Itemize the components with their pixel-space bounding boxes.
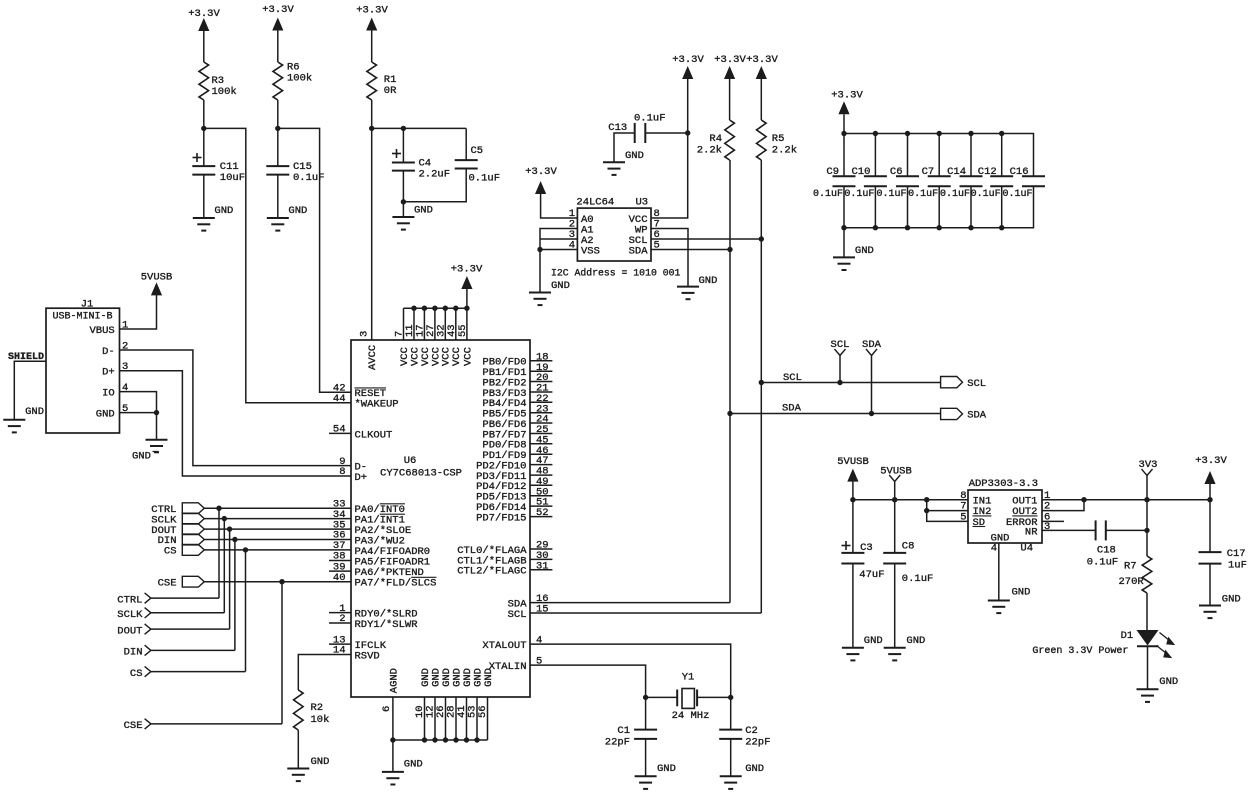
wire R2 to ground [297, 730, 299, 769]
wire A1 to gnd [540, 229, 577, 293]
svg-text:AVCC: AVCC [367, 345, 379, 370]
wire R1 to node [371, 100, 373, 128]
power +3.3V (reg out) [1195, 455, 1227, 484]
svg-text:VSS: VSS [581, 245, 600, 257]
wire C15 to ground [277, 175, 279, 218]
node SCL/U3 junction [759, 236, 764, 241]
chevron label CSE [124, 719, 151, 732]
svg-text:CS: CS [164, 546, 177, 558]
wire U6 VCC rail [404, 307, 467, 309]
wire DOUT vertical [229, 529, 231, 629]
wire crystal right [697, 696, 731, 698]
wire CS vertical [245, 550, 247, 672]
ground (C3) [842, 635, 883, 660]
ground (C11) [193, 205, 234, 231]
wire R3 to node [203, 100, 205, 128]
power +3.3V (R6) [262, 4, 294, 31]
capacitor C12 [971, 131, 1014, 231]
wire R6 node to RESET [278, 128, 351, 392]
svg-text:D+: D+ [355, 472, 368, 484]
svg-text:SDA: SDA [967, 409, 987, 421]
svg-text:R4: R4 [709, 133, 722, 145]
svg-text:GND: GND [414, 205, 433, 217]
text SHIELD [8, 352, 44, 363]
wire +3.3V to A0 [541, 194, 578, 218]
svg-text:0.1uF: 0.1uF [844, 189, 874, 200]
node SDA/U3 junction [727, 247, 732, 252]
svg-text:CLKOUT: CLKOUT [355, 429, 393, 441]
svg-text:2.2k: 2.2k [697, 145, 722, 157]
wire +3.3V to R4 [729, 79, 731, 120]
svg-text:DIN: DIN [124, 647, 143, 659]
wire +3.3V to R6 [277, 31, 279, 63]
ground (J1) [132, 440, 168, 463]
svg-text:USB-MINI-B: USB-MINI-B [52, 312, 112, 323]
svg-text:+3.3V: +3.3V [356, 5, 388, 17]
svg-text:AGND: AGND [388, 668, 400, 693]
tag connector DOUT [151, 524, 204, 537]
svg-text:100k: 100k [287, 73, 312, 85]
resistor R1 [367, 62, 397, 100]
wire C2 drop [730, 697, 732, 729]
wire CSE vertical [281, 582, 283, 724]
svg-text:C12: C12 [978, 166, 997, 178]
svg-text:24LC64: 24LC64 [576, 197, 614, 209]
wire U6 bottom stubs [393, 697, 488, 740]
svg-text:RDY1/*SLWR: RDY1/*SLWR [355, 619, 419, 631]
svg-text:C1: C1 [617, 725, 630, 737]
wire U6 SDA pin16 [530, 602, 730, 604]
node C4 ground junction [401, 199, 406, 204]
svg-text:+3.3V: +3.3V [831, 90, 863, 102]
power +3.3V (cap bank) [831, 90, 863, 115]
flag SDA out [941, 408, 987, 421]
svg-text:CTRL: CTRL [117, 594, 142, 606]
svg-text:2.2k: 2.2k [772, 145, 797, 157]
wire SCLK chevron [151, 612, 224, 614]
LED D1 [1121, 630, 1176, 658]
svg-text:R5: R5 [772, 133, 785, 145]
tag connector DIN [158, 534, 205, 547]
capacitor C1 [605, 725, 657, 749]
node R6/C15/RESET junction [275, 126, 280, 131]
wire DOUT to U6 [204, 528, 351, 530]
text green power [1032, 646, 1128, 657]
connector J1 USB-MINI-B [46, 298, 128, 433]
svg-text:SDA: SDA [862, 339, 882, 351]
wire R7 to LED [1146, 593, 1148, 630]
svg-text:GND: GND [288, 205, 307, 217]
svg-text:0.1uF: 0.1uF [1087, 557, 1119, 569]
svg-text:GND: GND [699, 275, 718, 287]
svg-text:0R: 0R [384, 85, 397, 97]
capacitor C3 [841, 541, 884, 581]
wire A2 to gnd [540, 238, 577, 240]
svg-text:0.1uF: 0.1uF [940, 189, 970, 200]
wire XTALIN [530, 665, 646, 697]
node C3 junction [850, 497, 855, 502]
wire +3.3V to rail [843, 114, 845, 133]
wire D+ pin3 to U6 [120, 371, 352, 476]
chevron label SCLK [117, 608, 151, 621]
crystal Y1 [672, 672, 710, 723]
svg-text:C17: C17 [1227, 548, 1246, 560]
svg-text:ADP3303-3.3: ADP3303-3.3 [969, 478, 1038, 490]
svg-text:D-: D- [102, 346, 115, 358]
svg-text:44: 44 [333, 393, 346, 405]
node IN2 branch junction [924, 497, 929, 502]
tag connector CS [164, 545, 204, 558]
svg-text:5VUSB: 5VUSB [141, 272, 173, 284]
svg-text:PA7/*FLD/SLCS: PA7/*FLD/SLCS [355, 578, 437, 590]
svg-text:270R: 270R [1119, 576, 1145, 588]
svg-text:C6: C6 [890, 166, 903, 178]
node SCLK junction [222, 516, 227, 521]
wire C1 to ground [645, 739, 647, 776]
ground (D1) [1137, 676, 1179, 702]
wire U6 ground rail [393, 739, 488, 741]
resistor R5 [757, 120, 798, 160]
svg-text:SDA: SDA [629, 245, 649, 257]
svg-text:8: 8 [339, 466, 345, 478]
svg-text:+3.3V: +3.3V [746, 54, 778, 66]
tag connector CTRL [151, 503, 204, 516]
node CTRL junction [216, 506, 221, 511]
wire VBUS pin1 [120, 293, 157, 329]
wire node to ground [402, 202, 404, 217]
capacitor C2 [719, 725, 770, 749]
svg-text:C8: C8 [902, 541, 915, 553]
svg-text:3: 3 [359, 331, 371, 337]
node SD branch junction [924, 508, 929, 513]
svg-text:GND: GND [214, 205, 233, 217]
capacitor C16 [1002, 166, 1045, 200]
wire C18 to node [1106, 529, 1147, 531]
svg-text:GND: GND [132, 451, 151, 463]
ground (C1) [635, 763, 676, 789]
svg-text:5: 5 [960, 512, 966, 524]
svg-text:C7: C7 [922, 166, 935, 178]
wire SHIELD to gnd [14, 361, 46, 420]
wire rail to +3.3V [466, 289, 468, 308]
svg-text:VBUS: VBUS [89, 325, 114, 337]
svg-text:0.1uF: 0.1uF [813, 189, 843, 200]
svg-text:+3.3V: +3.3V [1195, 455, 1227, 467]
svg-text:6: 6 [381, 706, 393, 712]
svg-text:RSVD: RSVD [355, 650, 380, 662]
wire C3 to ground [852, 564, 854, 648]
svg-text:SCL: SCL [831, 339, 850, 351]
wire CS to U6 [204, 549, 351, 551]
wire OUT1 rail [1042, 499, 1210, 501]
wire ERROR stub [1042, 520, 1064, 522]
capacitor C7 [908, 131, 951, 231]
capacitor C15 [266, 161, 324, 184]
capacitor C14 [940, 131, 983, 231]
svg-text:SCLK: SCLK [117, 609, 143, 621]
svg-text:CSE: CSE [158, 577, 177, 589]
IC U3 24LC64 [569, 197, 660, 262]
wire CSE chevron [151, 723, 282, 725]
svg-text:SCL: SCL [967, 378, 986, 390]
svg-text:J1: J1 [81, 298, 94, 310]
svg-text:C18: C18 [1097, 545, 1116, 557]
svg-text:GND: GND [745, 763, 764, 775]
svg-text:D+: D+ [102, 367, 115, 379]
node NR junction [1144, 528, 1149, 533]
wire node to C4 [402, 128, 404, 162]
power +3.3V (U3 A0) [525, 166, 557, 194]
IC U6 CY7C68013-CSP [329, 308, 552, 718]
wire C5 drop [465, 128, 467, 160]
svg-text:GND: GND [311, 756, 330, 768]
ground (C8) [884, 635, 926, 660]
wire WP pin7 to gnd [651, 229, 688, 287]
wire GND pin5 [120, 412, 157, 414]
svg-text:10uF: 10uF [220, 172, 245, 184]
flag SCL out [941, 377, 987, 390]
capacitor C6 [876, 131, 919, 231]
svg-text:0.1uF: 0.1uF [902, 573, 934, 585]
svg-text:GND: GND [906, 635, 925, 647]
svg-text:IO: IO [102, 387, 115, 399]
wire CTRL chevron [151, 597, 219, 599]
svg-text:CTL2/*FLAGC: CTL2/*FLAGC [457, 566, 526, 578]
wire AVCC down to U6 [371, 128, 373, 340]
svg-text:24 MHz: 24 MHz [672, 710, 710, 722]
wire 5VUSB arrow stem [852, 482, 854, 500]
chevron label DOUT [117, 624, 151, 637]
chevron label CS [130, 666, 151, 679]
node CS junction [243, 547, 248, 552]
resistor R2 [294, 690, 330, 730]
svg-text:5VUSB: 5VUSB [837, 456, 869, 468]
capacitor C5 [455, 145, 500, 185]
node C17 junction [1207, 497, 1212, 502]
resistor R4 [697, 120, 735, 160]
svg-text:10k: 10k [311, 714, 330, 726]
capacitor C11 [192, 153, 245, 184]
wire C5 to gnd rail [403, 169, 466, 202]
svg-text:0.1uF: 0.1uF [1002, 189, 1032, 200]
svg-text:GND: GND [864, 635, 883, 647]
power +3.3V (R5) [746, 54, 778, 79]
wire C8 to ground [894, 564, 896, 648]
svg-text:D1: D1 [1121, 630, 1134, 642]
wire D- pin2 to U6 [120, 350, 352, 466]
wire node to C15 [277, 128, 279, 166]
wire C17 to ground [1209, 564, 1211, 606]
node J1 gnd junction [154, 410, 159, 415]
wire U4 GND pin4 [998, 543, 1000, 601]
svg-text:C9: C9 [826, 166, 839, 178]
wire C11 to ground [203, 175, 205, 218]
node SDA stem junction [869, 411, 874, 416]
node R3/C11/WAKEUP junction [201, 126, 206, 131]
wire SCL bus [761, 372, 940, 384]
svg-text:GND: GND [483, 668, 495, 687]
tag connector SCLK [151, 513, 204, 526]
ground (C13) [603, 150, 644, 175]
ground (SHIELD) [3, 406, 44, 432]
node C8 junction [892, 497, 897, 502]
svg-text:SDA: SDA [782, 403, 802, 415]
node SCL bus junction [759, 380, 764, 385]
svg-text:GND: GND [1222, 594, 1241, 606]
svg-text:PD7/FD15: PD7/FD15 [476, 513, 526, 525]
ground (C2) [720, 763, 764, 789]
wire +3.3V stem [1209, 484, 1211, 500]
wire NR to C18 [1042, 529, 1096, 531]
svg-text:47uF: 47uF [859, 569, 884, 581]
wire SCLK to U6 [204, 518, 351, 520]
wire SDA bus [730, 403, 941, 415]
svg-text:22pF: 22pF [745, 737, 770, 749]
svg-text:C13: C13 [608, 122, 627, 134]
svg-text:+3.3V: +3.3V [714, 54, 746, 66]
wire DIN vertical [234, 540, 236, 651]
svg-text:+3.3V: +3.3V [188, 8, 220, 20]
svg-text:U6: U6 [404, 455, 417, 467]
svg-text:C3: C3 [860, 542, 873, 554]
wire cap bank top rail [844, 134, 1034, 177]
svg-text:C10: C10 [851, 166, 870, 178]
wire 3V3 to NR node [1146, 500, 1148, 531]
svg-text:C2: C2 [745, 725, 758, 737]
power +3.3V (R1) [356, 5, 388, 31]
wire XTALOUT [530, 644, 731, 697]
wire SD branch [927, 511, 968, 522]
wire SDA vertical [729, 160, 731, 603]
svg-text:NR: NR [1025, 526, 1038, 538]
wire cap bank bottom rail [844, 186, 1034, 227]
wire IN2 branch [927, 500, 968, 511]
svg-text:5VUSB: 5VUSB [880, 465, 912, 477]
wire CS chevron [151, 671, 246, 673]
node crystal left [643, 695, 648, 700]
svg-text:GND: GND [96, 408, 115, 420]
svg-text:22pF: 22pF [605, 737, 630, 749]
wire C3 drop [852, 500, 854, 553]
svg-text:U3: U3 [636, 197, 649, 209]
wire OUT2 join [1042, 500, 1084, 511]
svg-text:VCC: VCC [462, 347, 474, 366]
svg-text:0.1uF: 0.1uF [971, 189, 1001, 200]
wire +3.3V to R1 [371, 31, 373, 63]
wire bank to ground [843, 228, 845, 258]
svg-text:Y1: Y1 [682, 672, 695, 684]
svg-text:+3.3V: +3.3V [262, 4, 294, 16]
node SCL stem junction [837, 380, 842, 385]
net label 5VUSB (C8) [880, 465, 912, 499]
capacitor C18 [1087, 520, 1119, 568]
svg-text:55: 55 [457, 324, 469, 337]
svg-text:XTALOUT: XTALOUT [482, 640, 526, 652]
capacitor C9 [813, 131, 856, 231]
wire DIN to U6 [204, 539, 351, 541]
wire to J1 ground [156, 413, 158, 440]
svg-text:GND: GND [551, 280, 570, 292]
wire C2 to ground [730, 739, 732, 776]
svg-text:CY7C68013-CSP: CY7C68013-CSP [380, 468, 462, 480]
node VCC rail junctions [411, 306, 469, 311]
wire 5V rail [853, 499, 968, 501]
svg-text:0.1uF: 0.1uF [634, 113, 666, 125]
svg-text:+3.3V: +3.3V [525, 166, 557, 178]
wire R3 node to WAKEUP [204, 128, 351, 402]
node 3V3 junction [1144, 497, 1149, 502]
node DIN junction [232, 537, 237, 542]
wire VSS to gnd [540, 249, 577, 251]
resistor R6 [273, 62, 312, 101]
capacitor C8 [883, 541, 933, 586]
wire DIN chevron [151, 649, 235, 651]
node crystal right [728, 695, 733, 700]
svg-text:GND: GND [25, 406, 44, 418]
svg-text:I2C Address = 1010 001: I2C Address = 1010 001 [551, 268, 680, 279]
capacitor C4 [392, 149, 450, 181]
net label 3V3 [1139, 459, 1158, 500]
svg-text:C16: C16 [1010, 166, 1029, 178]
node SDA bus junction [727, 411, 732, 416]
svg-text:GND: GND [1012, 587, 1031, 599]
wire SCL vertical [760, 160, 762, 613]
power +3.3V (U6 VCC) [451, 264, 483, 290]
wire DOUT chevron [151, 628, 230, 630]
ground (U3 WP) [677, 275, 717, 299]
net label SCL [831, 339, 850, 383]
wire C1 drop [645, 697, 647, 729]
ground (C4/C5) [392, 205, 433, 230]
ground (U3) [529, 280, 570, 305]
ground (C17) [1199, 594, 1241, 619]
svg-text:0.1uF: 0.1uF [908, 189, 938, 200]
wire SDA pin5 [651, 249, 730, 251]
svg-text:GND: GND [657, 763, 676, 775]
svg-text:R7: R7 [1124, 561, 1137, 573]
svg-text:GND: GND [625, 150, 644, 162]
svg-text:+3.3V: +3.3V [672, 54, 704, 66]
node R1/AVCC junction [369, 126, 374, 131]
wire node to C11 [203, 128, 205, 166]
wire R6 to node [277, 100, 279, 128]
svg-text:100k: 100k [212, 86, 237, 98]
wire AGND to ground [392, 740, 394, 772]
power +3.3V (U3 VCC) [672, 54, 704, 79]
svg-text:CS: CS [130, 668, 143, 680]
wire CTRL vertical [218, 508, 220, 598]
capacitor C17 [1199, 548, 1247, 572]
wire SCL pin6 [651, 238, 761, 240]
wire C4 to gnd node [402, 171, 404, 202]
wire +3.3V to R5 [760, 79, 762, 120]
svg-text:0.1uF: 0.1uF [469, 173, 501, 185]
capacitor C10 [844, 131, 887, 231]
node CSE junction [279, 579, 284, 584]
node OUT2 junction [1081, 497, 1086, 502]
wire NR node to R7 [1146, 530, 1148, 556]
ground (C15) [267, 205, 308, 231]
wire AVCC rail [372, 127, 467, 129]
power 5VUSB (C3) [837, 456, 869, 482]
node U6 gnd junctions [390, 737, 480, 742]
svg-text:3: 3 [1044, 521, 1050, 533]
ground (R2) [287, 756, 329, 781]
node DOUT junction [227, 526, 232, 531]
svg-text:Green 3.3V Power: Green 3.3V Power [1032, 646, 1128, 657]
ground (U4) [988, 587, 1031, 614]
node VSS junction [537, 247, 542, 252]
